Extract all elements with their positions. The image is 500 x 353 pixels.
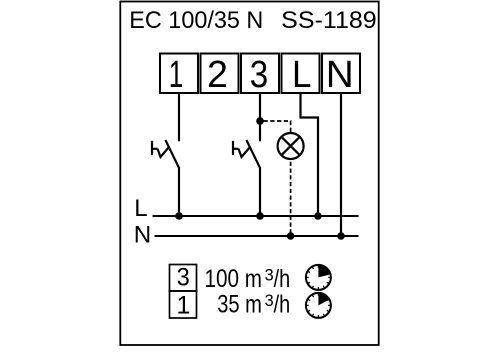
- svg-text:1: 1: [177, 292, 191, 320]
- timer icon clock1: [306, 265, 331, 290]
- svg-text:SS-1189: SS-1189: [281, 7, 377, 34]
- svg-text:N: N: [134, 222, 152, 249]
- svg-text:3: 3: [177, 264, 190, 292]
- wire S2 to L line: [259, 167, 261, 216]
- terminal L: [282, 54, 320, 97]
- svg-text:3: 3: [250, 54, 269, 96]
- dashed wire node to lamp: [264, 121, 291, 133]
- legend box 3: [170, 265, 197, 292]
- timer icon clock2: [306, 293, 331, 318]
- svg-text:/h: /h: [274, 290, 291, 318]
- junction S2/L: [256, 212, 264, 220]
- junction Lterm/L: [314, 212, 322, 220]
- node terminal3 branch: [256, 117, 264, 125]
- svg-text:3: 3: [265, 292, 274, 310]
- wire S1 to L line: [178, 167, 180, 216]
- net L line: [153, 215, 359, 217]
- junction S1/L: [175, 212, 183, 220]
- legend box 1: [170, 291, 197, 318]
- lamp E1: [278, 133, 304, 159]
- svg-text:3: 3: [265, 267, 274, 285]
- switch S1: [152, 140, 179, 168]
- svg-text:L: L: [134, 195, 147, 222]
- terminal 2: [201, 54, 239, 97]
- svg-text:100 m: 100 m: [205, 265, 262, 293]
- svg-text:1: 1: [169, 54, 184, 96]
- junction lamp/N: [287, 232, 295, 240]
- svg-text:L: L: [292, 54, 312, 96]
- svg-text:EC 100/35 N: EC 100/35 N: [129, 7, 263, 34]
- net N line: [155, 235, 359, 237]
- svg-text:/h: /h: [274, 265, 291, 293]
- terminal N: [322, 54, 360, 97]
- switch S2: [233, 140, 260, 168]
- junction Nterm/N: [337, 232, 345, 240]
- wire terminal1 to switch S1: [178, 93, 180, 141]
- terminal 1: [160, 54, 198, 97]
- svg-text:2: 2: [207, 54, 228, 96]
- terminal 3: [241, 54, 279, 97]
- wire terminal3 down: [259, 93, 261, 141]
- dashed wire lamp to N line: [290, 160, 292, 237]
- wire terminal N down: [340, 93, 342, 236]
- svg-text:N: N: [326, 54, 354, 96]
- wire terminal L jog down: [301, 93, 319, 216]
- svg-text:35 m: 35 m: [217, 290, 262, 318]
